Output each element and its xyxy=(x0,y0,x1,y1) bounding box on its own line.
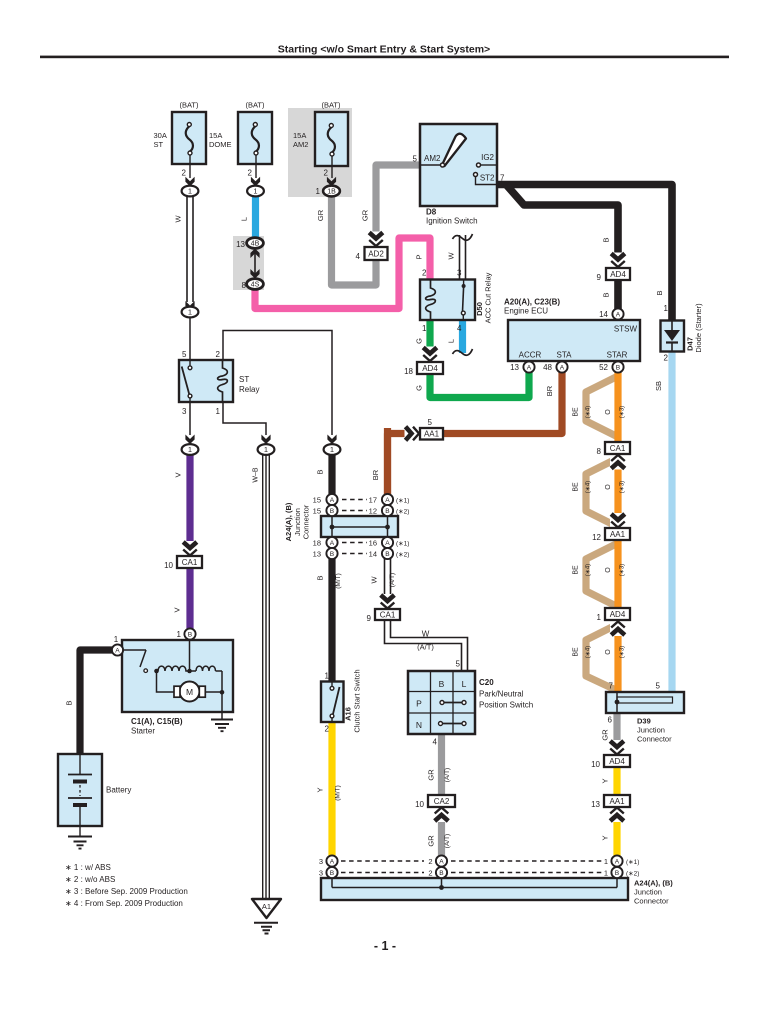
svg-text:D8: D8 xyxy=(426,208,437,217)
svg-text:M: M xyxy=(186,687,193,697)
svg-text:18: 18 xyxy=(404,367,413,376)
wire link between 4B and 4S xyxy=(254,248,256,279)
svg-text:Relay: Relay xyxy=(239,385,259,394)
starter C1 C15 xyxy=(122,640,233,712)
svg-text:1: 1 xyxy=(664,304,669,313)
svg-text:B: B xyxy=(330,870,335,877)
svg-text:A16: A16 xyxy=(344,707,353,721)
svg-text:2: 2 xyxy=(428,857,432,866)
svg-text:9: 9 xyxy=(597,273,602,282)
chevron down above AD4 D39 chain xyxy=(609,740,625,755)
svg-text:O: O xyxy=(605,409,612,415)
svg-text:Park/Neutral: Park/Neutral xyxy=(479,690,524,699)
wire SB from diode D47 to D39 pin 5 xyxy=(668,350,675,692)
svg-text:B: B xyxy=(615,870,620,877)
junction connector A24 middle xyxy=(321,516,398,537)
svg-text:O: O xyxy=(605,484,612,490)
connector 10 CA1 purple xyxy=(177,556,202,568)
svg-text:(BAT): (BAT) xyxy=(321,101,341,110)
svg-text:AA1: AA1 xyxy=(609,797,625,806)
svg-text:8: 8 xyxy=(597,447,602,456)
svg-text:G: G xyxy=(415,338,424,344)
svg-text:15A: 15A xyxy=(293,131,306,140)
wire thin ST relay pin1 to W-B xyxy=(223,402,266,435)
svg-text:- 1 -: - 1 - xyxy=(374,939,396,953)
wire GR from D39 pin 6 xyxy=(613,713,620,756)
svg-text:10: 10 xyxy=(591,760,600,769)
svg-text:5: 5 xyxy=(413,155,418,164)
node oval V xyxy=(182,444,199,455)
wire thin ST relay pin2 to node B xyxy=(223,331,332,436)
diode D47 xyxy=(661,321,685,352)
wire O orange from ECU STAR to D39 pin 7 xyxy=(614,370,621,692)
svg-text:Starting <w/o Smart Entry & St: Starting <w/o Smart Entry & Start System… xyxy=(278,44,490,56)
chevron up below AD4 orange xyxy=(610,621,626,636)
svg-text:2: 2 xyxy=(422,269,427,278)
wire W to CA1 A/T xyxy=(384,557,392,597)
fuse 15A AM2 xyxy=(315,112,348,166)
svg-text:B: B xyxy=(439,679,445,689)
wire G green from ACC cut relay pin 1 to ECU ACCR xyxy=(430,318,529,398)
arrow into connector fuse DOME xyxy=(251,177,260,187)
svg-text:15: 15 xyxy=(313,507,321,516)
svg-text:GR: GR xyxy=(601,729,610,741)
svg-text:1: 1 xyxy=(330,445,334,454)
svg-text:1: 1 xyxy=(604,857,608,866)
connector oval 1 fuse ST xyxy=(182,186,199,197)
chevron up below CA1 orange xyxy=(610,455,626,470)
svg-text:B: B xyxy=(330,551,335,558)
ECU pin 48 circle xyxy=(556,361,567,372)
svg-text:GR: GR xyxy=(427,835,436,847)
svg-text:4B: 4B xyxy=(251,241,260,248)
wire BE beige loop 1 xyxy=(586,376,618,437)
svg-text:13: 13 xyxy=(313,550,321,559)
connector oval 4S xyxy=(247,279,264,290)
svg-text:W: W xyxy=(422,630,430,639)
svg-text:W: W xyxy=(370,576,379,584)
fuse 30A ST xyxy=(172,112,206,164)
junction mid row 15B-12B xyxy=(326,505,337,516)
svg-text:A: A xyxy=(615,858,620,865)
arrow into connector 1 above ST relay xyxy=(185,301,194,311)
svg-text:BE: BE xyxy=(573,482,580,492)
svg-text:B: B xyxy=(385,508,390,515)
svg-text:STA: STA xyxy=(557,351,573,360)
svg-text:BR: BR xyxy=(545,385,554,396)
svg-text:(BAT): (BAT) xyxy=(245,101,265,110)
svg-text:AD4: AD4 xyxy=(422,364,438,373)
wire L blue below ACC cut relay pin 4 xyxy=(459,318,466,353)
svg-text:BE: BE xyxy=(573,407,580,417)
svg-text:V: V xyxy=(174,472,183,477)
svg-text:(M/T): (M/T) xyxy=(335,573,342,589)
wire Y yellow D39 chain lower xyxy=(613,806,620,856)
connector oval 4B xyxy=(247,238,264,249)
svg-text:N: N xyxy=(416,720,422,730)
arrow into node B xyxy=(327,435,336,445)
wire B black branch from ST2 to AD4 and ECU STSW xyxy=(506,185,618,310)
svg-text:∗ 1 : w/ ABS: ∗ 1 : w/ ABS xyxy=(65,863,111,872)
svg-text:A: A xyxy=(385,540,390,547)
svg-text:AD4: AD4 xyxy=(609,757,625,766)
svg-text:AM2: AM2 xyxy=(293,140,308,149)
svg-text:A: A xyxy=(439,858,444,865)
svg-text:W–B: W–B xyxy=(253,467,260,483)
connector 4 AD2 xyxy=(365,247,388,260)
svg-text:(A/T): (A/T) xyxy=(444,768,451,782)
svg-text:4: 4 xyxy=(457,324,462,333)
arrow into node V xyxy=(185,435,194,445)
svg-text:C1(A), C15(B): C1(A), C15(B) xyxy=(131,717,183,726)
fuse 15A DOME xyxy=(238,112,272,164)
svg-text:A: A xyxy=(560,364,565,371)
junction connector A24 bottom xyxy=(321,878,628,900)
svg-text:1: 1 xyxy=(216,407,221,416)
junction bottom row A xyxy=(326,855,337,866)
svg-text:IG2: IG2 xyxy=(481,153,494,162)
svg-text:A: A xyxy=(330,858,335,865)
svg-text:1: 1 xyxy=(422,324,427,333)
svg-text:BR: BR xyxy=(371,469,380,480)
svg-text:A: A xyxy=(385,497,390,504)
chevron down above CA1 purple xyxy=(182,541,198,556)
chevron down above AD2 xyxy=(368,232,384,247)
svg-text:B: B xyxy=(385,551,390,558)
svg-text:(∗4): (∗4) xyxy=(586,646,592,658)
svg-text:10: 10 xyxy=(164,561,173,570)
wire BR brown from ECU STA via AA1 xyxy=(388,370,563,496)
gray panel behind fuse AM2 xyxy=(288,108,352,197)
svg-text:Y: Y xyxy=(601,835,610,840)
svg-text:5: 5 xyxy=(182,350,187,359)
svg-text:13: 13 xyxy=(510,363,519,372)
arrow into connector fuse AM2 xyxy=(327,177,336,187)
park neutral position switch C20 xyxy=(408,671,475,734)
chevron down above CA1 AT xyxy=(380,594,396,609)
svg-text:12: 12 xyxy=(369,507,377,516)
wire break tilde bottom xyxy=(453,349,473,355)
svg-text:GR: GR xyxy=(316,209,325,221)
svg-text:8: 8 xyxy=(242,281,247,290)
svg-text:STSW: STSW xyxy=(614,325,638,334)
svg-text:B: B xyxy=(602,237,611,242)
junction mid row 18A-16A xyxy=(326,537,337,548)
svg-text:P: P xyxy=(416,699,422,709)
connector oval 1 above relay xyxy=(182,307,199,318)
wire BE beige loop 3 xyxy=(586,543,618,607)
chevron up below AA1 D39 chain xyxy=(609,807,625,822)
junction mid row 13B-14B xyxy=(326,548,337,559)
svg-text:L: L xyxy=(447,339,456,343)
arrow up into 4B xyxy=(250,249,259,259)
svg-text:(A/T): (A/T) xyxy=(444,834,451,848)
wire W-B from ST relay pin 1 to ground A1 xyxy=(262,454,270,898)
svg-text:2: 2 xyxy=(182,169,187,178)
connector 9 AD4 xyxy=(606,268,630,280)
svg-text:Connector: Connector xyxy=(302,504,311,539)
wire Y yellow clutch switch to junction xyxy=(328,721,335,856)
svg-text:A24(A), (B): A24(A), (B) xyxy=(284,502,293,541)
clutch start switch A16 xyxy=(321,682,344,723)
svg-text:(∗4): (∗4) xyxy=(586,406,592,418)
svg-text:12: 12 xyxy=(592,533,601,542)
svg-text:1B: 1B xyxy=(327,189,336,196)
svg-text:14: 14 xyxy=(599,310,608,319)
svg-text:AM2: AM2 xyxy=(424,154,441,163)
battery ground xyxy=(79,826,81,836)
svg-text:A20(A), C23(B): A20(A), C23(B) xyxy=(504,298,560,307)
svg-text:2: 2 xyxy=(428,869,432,878)
svg-text:Position Switch: Position Switch xyxy=(479,701,533,710)
wire W from CA1 to C20 pin 5 xyxy=(388,619,465,672)
svg-text:Starter: Starter xyxy=(131,727,155,736)
wire BE beige loop 2 xyxy=(586,458,618,527)
ST relay xyxy=(179,360,233,402)
engine ECU A20 C23 xyxy=(508,320,640,361)
svg-text:(∗1): (∗1) xyxy=(396,498,409,505)
svg-text:2: 2 xyxy=(248,169,253,178)
wire break tilde top xyxy=(453,234,473,240)
svg-text:14: 14 xyxy=(369,550,377,559)
svg-text:O: O xyxy=(605,649,612,655)
wire L blue from fuse DOME xyxy=(252,196,259,240)
ignition switch D8 xyxy=(420,124,497,206)
connector 18 AD4 xyxy=(417,362,443,374)
wire B black starter to battery xyxy=(80,650,124,755)
svg-text:A24(A), (B): A24(A), (B) xyxy=(634,879,673,888)
svg-text:B: B xyxy=(330,508,335,515)
svg-text:1: 1 xyxy=(188,308,192,317)
wire W white above ACC cut relay pin 3 xyxy=(459,235,467,281)
svg-text:STAR: STAR xyxy=(607,351,628,360)
svg-text:1: 1 xyxy=(316,187,321,196)
svg-text:13: 13 xyxy=(591,800,600,809)
svg-text:D39: D39 xyxy=(637,717,651,726)
svg-text:GR: GR xyxy=(427,769,436,781)
svg-text:7: 7 xyxy=(500,174,505,183)
svg-text:10: 10 xyxy=(415,800,424,809)
svg-text:6: 6 xyxy=(608,716,613,725)
wire Y yellow D39 chain upper xyxy=(613,766,620,796)
svg-text:(∗3): (∗3) xyxy=(620,406,626,418)
svg-text:1: 1 xyxy=(114,635,119,644)
svg-text:CA1: CA1 xyxy=(610,444,626,453)
arrow down into 4S xyxy=(250,269,259,279)
svg-text:3: 3 xyxy=(319,869,323,878)
svg-text:30A: 30A xyxy=(154,131,167,140)
svg-text:(∗3): (∗3) xyxy=(620,481,626,493)
svg-text:ST: ST xyxy=(154,140,164,149)
svg-text:17: 17 xyxy=(369,496,377,505)
svg-text:V: V xyxy=(173,607,182,612)
svg-text:ACC Cut Relay: ACC Cut Relay xyxy=(484,272,493,323)
wire V purple from ST relay to starter xyxy=(186,454,193,632)
svg-text:15: 15 xyxy=(313,496,321,505)
junction connector D39 xyxy=(606,692,684,713)
svg-text:3: 3 xyxy=(319,857,323,866)
wire BE beige loop 4 xyxy=(586,624,618,691)
svg-text:Ignition Switch: Ignition Switch xyxy=(426,217,478,226)
starter pin B circle xyxy=(184,628,195,639)
svg-text:A1: A1 xyxy=(262,902,271,911)
title underline xyxy=(40,56,729,59)
svg-text:A: A xyxy=(616,311,621,318)
svg-text:1: 1 xyxy=(264,445,268,454)
svg-text:1: 1 xyxy=(188,445,192,454)
connector 9 CA1 AT xyxy=(375,609,400,620)
connector 10 AD4 D39 xyxy=(604,755,630,767)
svg-text:B: B xyxy=(65,700,74,705)
svg-text:GR: GR xyxy=(361,209,370,221)
svg-text:1: 1 xyxy=(188,187,192,196)
connector 1 AD4 orange xyxy=(605,608,630,620)
svg-text:(∗4): (∗4) xyxy=(586,481,592,493)
svg-text:4S: 4S xyxy=(251,282,260,289)
svg-text:∗ 2 : w/o ABS: ∗ 2 : w/o ABS xyxy=(65,875,115,884)
svg-text:(∗3): (∗3) xyxy=(620,646,626,658)
svg-text:CA2: CA2 xyxy=(434,797,450,806)
svg-text:Y: Y xyxy=(601,778,610,783)
svg-text:15A: 15A xyxy=(209,131,222,140)
svg-text:52: 52 xyxy=(599,363,608,372)
svg-text:A: A xyxy=(330,540,335,547)
svg-text:(∗2): (∗2) xyxy=(396,509,409,516)
connector 10 CA2 xyxy=(428,795,455,807)
connector 5 AA1 xyxy=(420,428,443,440)
svg-text:AD4: AD4 xyxy=(610,610,626,619)
svg-text:A: A xyxy=(115,647,120,654)
svg-text:Junction: Junction xyxy=(637,726,665,735)
connector oval 1 fuse DOME xyxy=(247,186,264,197)
ground A1 xyxy=(252,899,281,918)
svg-text:18: 18 xyxy=(313,539,321,548)
svg-text:(∗1): (∗1) xyxy=(626,859,639,866)
svg-text:Connector: Connector xyxy=(634,897,669,906)
connector 8 CA1 xyxy=(605,442,630,454)
ECU pin 14 circle xyxy=(612,308,623,319)
svg-text:Y: Y xyxy=(316,787,325,792)
svg-text:(M/T): (M/T) xyxy=(335,785,342,801)
svg-text:48: 48 xyxy=(543,363,552,372)
connector 13 AA1 D39 xyxy=(604,795,630,807)
chevron up below CA2 xyxy=(434,807,450,822)
svg-text:Clutch Start Switch: Clutch Start Switch xyxy=(353,669,362,732)
wire B black junction to clutch switch xyxy=(328,557,335,682)
svg-text:Engine ECU: Engine ECU xyxy=(504,307,548,316)
svg-text:2: 2 xyxy=(324,169,329,178)
node oval WB xyxy=(258,444,275,455)
svg-text:9: 9 xyxy=(367,614,372,623)
svg-text:BE: BE xyxy=(573,565,580,575)
ECU pin 13 circle xyxy=(523,361,534,372)
svg-text:(BAT): (BAT) xyxy=(179,101,199,110)
svg-text:C20: C20 xyxy=(479,678,494,687)
junction mid row 15A-17A xyxy=(326,494,337,505)
svg-text:B: B xyxy=(316,575,325,580)
chevron down above AA1 orange xyxy=(610,513,626,528)
svg-text:1: 1 xyxy=(597,613,602,622)
svg-text:G: G xyxy=(415,385,424,391)
svg-text:ST2: ST2 xyxy=(480,174,495,183)
svg-text:W: W xyxy=(447,252,456,260)
svg-text:B: B xyxy=(602,292,611,297)
svg-text:∗ 3 : Before Sep. 2009 Produc: ∗ 3 : Before Sep. 2009 Production xyxy=(65,887,188,896)
battery xyxy=(58,754,102,826)
chevron down above AD4 green xyxy=(422,347,438,362)
junction bottom row B xyxy=(326,867,337,878)
svg-text:L: L xyxy=(240,217,249,221)
wire BR stub into 17A xyxy=(384,428,391,496)
svg-text:O: O xyxy=(605,567,612,573)
chevron right into AA1 brown xyxy=(405,426,420,442)
svg-text:(∗1): (∗1) xyxy=(396,541,409,548)
wire W from fuse ST to connector xyxy=(186,196,194,302)
svg-text:1: 1 xyxy=(604,869,608,878)
wire P pink from 4S to ACC cut relay pin 2 xyxy=(255,238,430,309)
svg-text:3: 3 xyxy=(182,407,187,416)
wire GR from fuse AM2 via AD2 to ignition switch AM2 xyxy=(332,165,423,285)
svg-text:(∗2): (∗2) xyxy=(396,552,409,559)
svg-text:AD2: AD2 xyxy=(368,249,384,258)
connector 12 AA1 xyxy=(605,528,630,540)
svg-text:CA1: CA1 xyxy=(380,610,396,619)
wire B black to junction A24 xyxy=(328,454,335,496)
svg-text:B: B xyxy=(316,469,325,474)
svg-text:4: 4 xyxy=(433,738,438,747)
svg-text:(∗2): (∗2) xyxy=(626,871,639,878)
svg-text:2: 2 xyxy=(664,354,669,363)
svg-text:2: 2 xyxy=(325,725,330,734)
svg-text:5: 5 xyxy=(456,660,461,669)
svg-text:3: 3 xyxy=(457,269,462,278)
svg-text:Battery: Battery xyxy=(106,786,131,795)
svg-text:1: 1 xyxy=(325,672,330,681)
svg-text:B: B xyxy=(188,631,193,638)
svg-text:ST: ST xyxy=(239,375,249,384)
node oval B xyxy=(324,444,341,455)
svg-text:AA1: AA1 xyxy=(610,530,626,539)
svg-text:5: 5 xyxy=(428,418,433,427)
svg-text:BE: BE xyxy=(573,647,580,657)
starter pin A circle xyxy=(112,644,123,655)
svg-text:A: A xyxy=(527,364,532,371)
svg-text:(∗3): (∗3) xyxy=(620,564,626,576)
arrow into node W-B xyxy=(261,435,270,445)
chevron down above AD4 ST2 xyxy=(610,253,626,268)
svg-text:Connector: Connector xyxy=(637,735,672,744)
wire thin from connector 1 to ST relay pin 5 xyxy=(189,318,191,360)
svg-text:(A/T): (A/T) xyxy=(417,643,434,652)
gray panel behind connectors 4B 4S xyxy=(233,236,264,290)
ECU pin 52 circle xyxy=(612,361,623,372)
svg-text:L: L xyxy=(462,679,467,689)
svg-text:AA1: AA1 xyxy=(424,430,440,439)
svg-text:P: P xyxy=(415,254,424,259)
svg-text:Diode (Starter): Diode (Starter) xyxy=(694,303,703,353)
svg-text:A: A xyxy=(330,497,335,504)
svg-text:(A/T): (A/T) xyxy=(389,573,396,587)
starter ground xyxy=(211,720,233,732)
svg-text:B: B xyxy=(439,870,444,877)
wire B black from ignition ST2 to diode D47 xyxy=(495,185,672,324)
svg-text:13: 13 xyxy=(236,240,245,249)
svg-text:Junction: Junction xyxy=(634,888,662,897)
svg-text:1: 1 xyxy=(253,187,257,196)
svg-text:(∗4): (∗4) xyxy=(586,564,592,576)
arrow into connector fuse ST xyxy=(185,177,194,187)
svg-text:B: B xyxy=(616,364,621,371)
